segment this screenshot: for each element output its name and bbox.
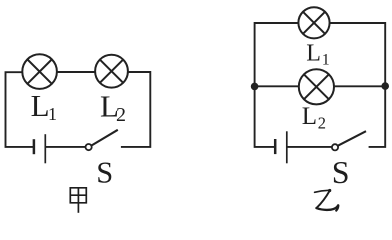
- svg-text:S: S: [332, 154, 350, 190]
- svg-text:L: L: [306, 40, 321, 66]
- svg-text:L: L: [302, 103, 317, 130]
- svg-text:2: 2: [116, 104, 126, 126]
- svg-text:2: 2: [318, 114, 326, 133]
- svg-text:1: 1: [48, 104, 57, 124]
- svg-text:L: L: [31, 88, 50, 123]
- svg-text:1: 1: [322, 51, 330, 68]
- svg-text:S: S: [96, 155, 113, 189]
